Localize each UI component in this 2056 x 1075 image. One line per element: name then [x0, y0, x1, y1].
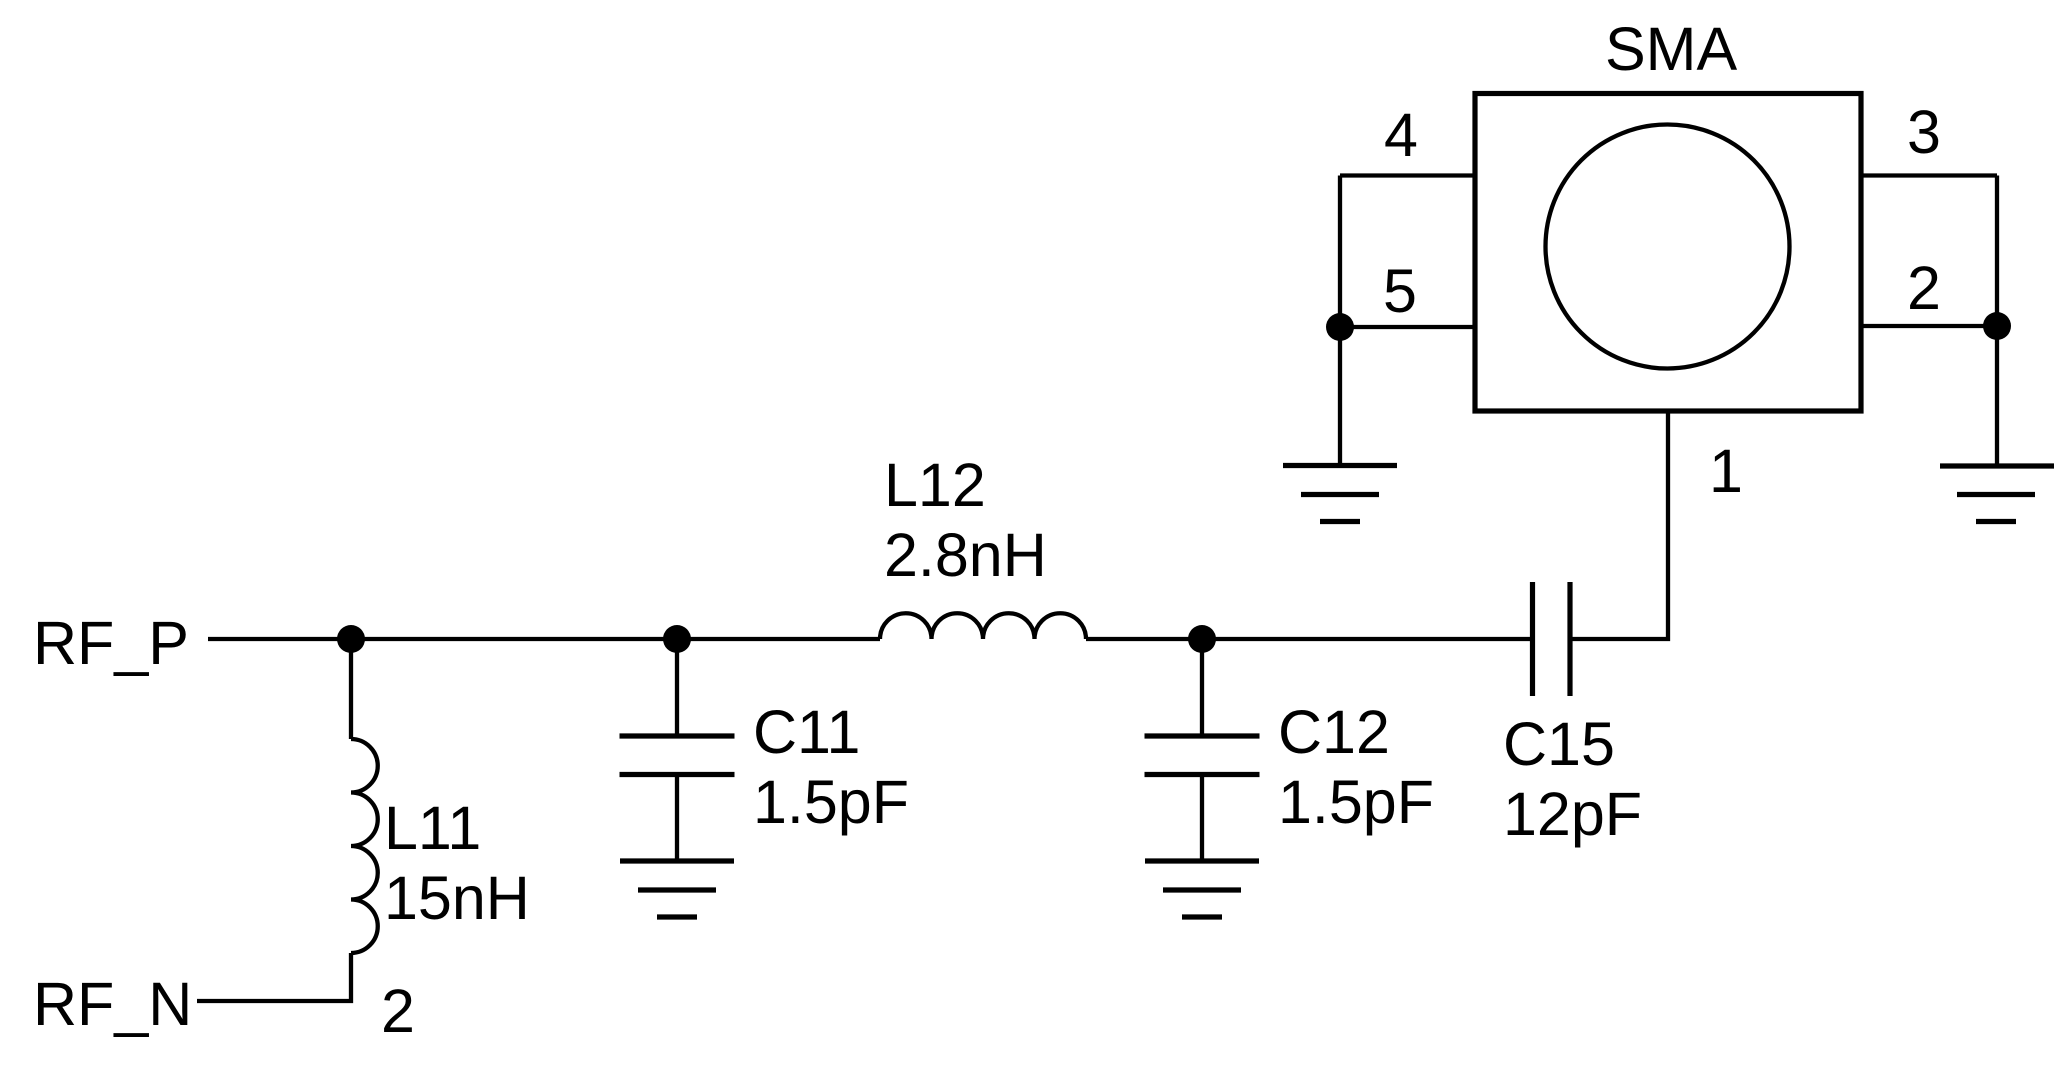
wire SMA pin 4 [1340, 173, 1475, 177]
wire C11 node to L12 [677, 637, 880, 641]
ground (SMA right) [1940, 466, 2054, 522]
node RF_P junction [337, 625, 365, 653]
svg-text:1.5pF: 1.5pF [753, 768, 909, 836]
capacitor C15 [1533, 582, 1571, 696]
ground (C11) [620, 861, 734, 917]
label C11 1.5pF [753, 698, 909, 836]
ground (C12) [1145, 861, 1259, 917]
wire SMA left ground drop [1338, 176, 1342, 466]
svg-text:1: 1 [1709, 437, 1743, 505]
svg-text:RF_N: RF_N [33, 970, 192, 1038]
label L12 2.8nH [884, 451, 1047, 589]
svg-text:L12: L12 [884, 451, 986, 519]
inductor L12 [880, 613, 1086, 639]
ground (SMA left) [1283, 466, 1397, 522]
wire RF_P lead [208, 637, 351, 641]
wire RF_P node to C11 node [351, 637, 677, 641]
wire C12 node to C15 [1202, 637, 1533, 641]
inductor L11 [351, 739, 378, 953]
wire L11 top lead [349, 639, 353, 739]
wire SMA pin 2 [1861, 324, 1997, 328]
svg-text:15nH: 15nH [384, 864, 530, 932]
wire SMA pin 3 [1861, 173, 1997, 177]
svg-text:C12: C12 [1278, 698, 1390, 766]
label L11 15nH [384, 794, 530, 932]
connector SMA body [1475, 94, 1861, 412]
svg-text:2: 2 [381, 977, 415, 1045]
wire C15 to SMA pin 1 [1570, 411, 1668, 639]
capacitor C11 [620, 639, 735, 861]
wire L11 bottom lead [197, 953, 351, 1001]
node C11 junction [663, 625, 691, 653]
wire SMA right ground drop [1995, 176, 1999, 467]
svg-text:12pF: 12pF [1503, 780, 1642, 848]
svg-text:2.8nH: 2.8nH [884, 521, 1047, 589]
wire L12 to C12 node [1086, 637, 1202, 641]
svg-text:1.5pF: 1.5pF [1278, 768, 1434, 836]
svg-text:C15: C15 [1503, 710, 1615, 778]
svg-text:SMA: SMA [1605, 15, 1738, 83]
svg-text:2: 2 [1907, 254, 1941, 322]
node C12 junction [1188, 625, 1216, 653]
label C12 1.5pF [1278, 698, 1434, 836]
svg-text:L11: L11 [384, 794, 481, 862]
svg-text:RF_P: RF_P [33, 609, 189, 677]
svg-text:5: 5 [1383, 257, 1417, 325]
node SMA pin 2 junction [1983, 312, 2011, 340]
svg-text:C11: C11 [753, 698, 860, 766]
capacitor C12 [1145, 639, 1260, 861]
connector SMA center circle [1546, 125, 1790, 369]
svg-text:4: 4 [1384, 101, 1418, 169]
wire SMA pin 5 [1340, 325, 1475, 329]
label C15 12pF [1503, 710, 1642, 848]
svg-text:3: 3 [1907, 98, 1941, 166]
node SMA pin 5 junction [1326, 313, 1354, 341]
